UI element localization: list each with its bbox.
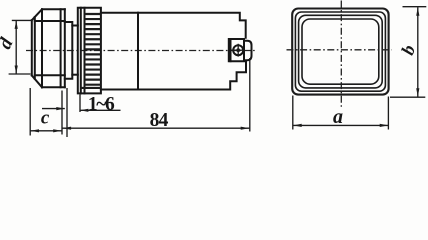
svg-text:1~6: 1~6 xyxy=(88,94,115,115)
svg-text:c: c xyxy=(41,108,50,129)
svg-text:a: a xyxy=(333,106,343,128)
svg-text:84: 84 xyxy=(150,110,169,131)
